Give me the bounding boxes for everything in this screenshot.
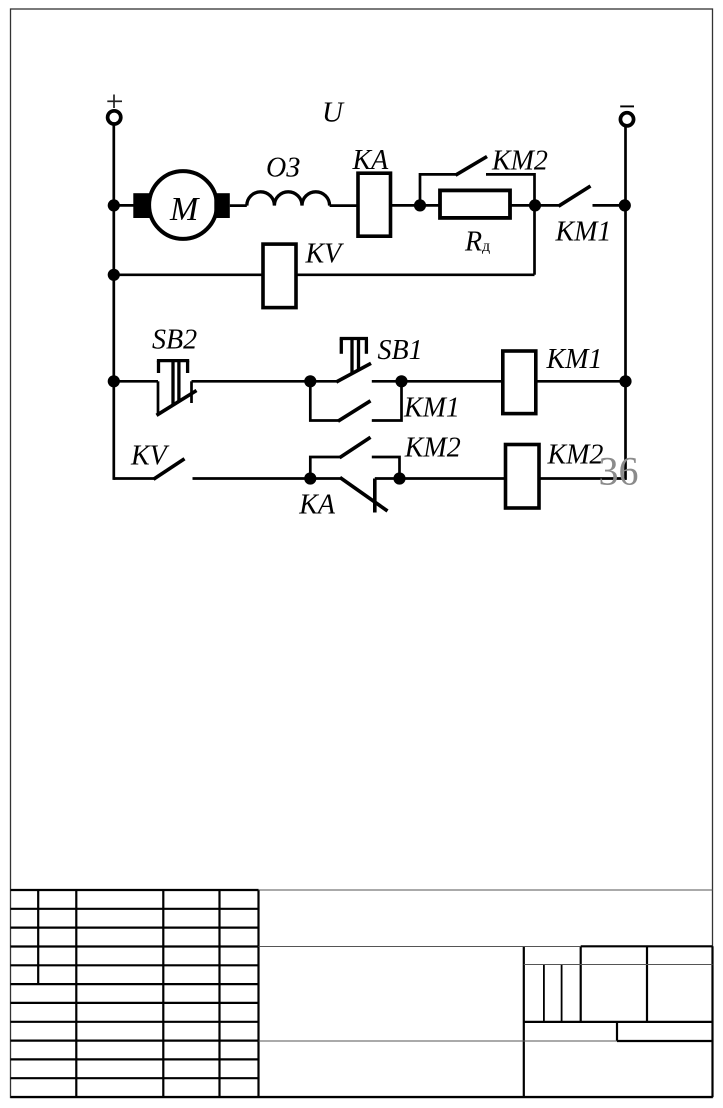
- svg-text:КА: КА: [298, 489, 336, 520]
- svg-text:КМ1: КМ1: [546, 344, 603, 375]
- svg-text:KV: KV: [305, 239, 345, 270]
- svg-text:SB2: SB2: [152, 325, 197, 356]
- svg-text:KV: KV: [130, 440, 170, 471]
- svg-text:КМ2: КМ2: [547, 440, 604, 471]
- svg-text:КМ2: КМ2: [404, 433, 461, 464]
- svg-text:д: д: [482, 238, 490, 255]
- svg-text:КМ1: КМ1: [403, 393, 460, 424]
- svg-text:SB1: SB1: [378, 335, 423, 366]
- svg-text:КМ1: КМ1: [555, 217, 612, 248]
- svg-text:36: 36: [599, 449, 639, 494]
- svg-text:ОЗ: ОЗ: [266, 153, 300, 184]
- svg-text:КМ2: КМ2: [491, 146, 548, 177]
- svg-text:R: R: [464, 227, 482, 258]
- svg-text:M: M: [169, 191, 200, 228]
- svg-text:КА: КА: [352, 145, 390, 176]
- svg-text:U: U: [322, 97, 345, 129]
